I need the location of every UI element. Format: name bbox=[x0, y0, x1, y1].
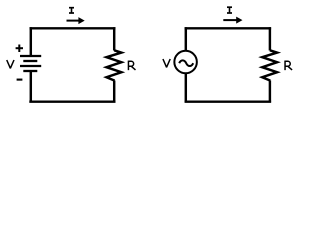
label I (right) bbox=[227, 7, 232, 13]
plus sign bbox=[16, 45, 23, 53]
minus sign bbox=[17, 79, 23, 81]
wire right-top stub to resistor bbox=[113, 27, 115, 50]
label V (AC source) bbox=[163, 59, 170, 67]
battery V1 (4 plates) bbox=[20, 56, 41, 71]
wire right-top stub to resistor bbox=[269, 27, 271, 50]
AC source V2 circle bbox=[174, 51, 197, 74]
wire right-bottom stub from resistor bbox=[269, 81, 271, 103]
wire bottom (left circuit) bbox=[29, 100, 115, 102]
wire left-bottom stub from AC source bbox=[185, 73, 187, 102]
wire bottom (right circuit) bbox=[185, 100, 272, 102]
wire right-bottom stub from resistor bbox=[113, 81, 115, 103]
wire top (left circuit) bbox=[30, 27, 116, 29]
wire left-top stub to AC source bbox=[185, 27, 187, 50]
wire left-top stub to battery bbox=[30, 27, 32, 56]
resistor R2 zigzag bbox=[262, 50, 277, 80]
wire left-bottom stub from battery bbox=[30, 71, 32, 103]
AC source sine wave bbox=[179, 60, 193, 66]
wire top (right circuit) bbox=[185, 27, 272, 29]
label I (left) bbox=[69, 8, 74, 13]
label R (left resistor) bbox=[128, 61, 135, 71]
label R (right resistor) bbox=[285, 61, 292, 71]
label V (battery) bbox=[7, 60, 14, 68]
current arrow (right) bbox=[223, 17, 242, 24]
resistor R1 zigzag bbox=[107, 50, 122, 80]
current arrow (left) bbox=[67, 17, 85, 24]
